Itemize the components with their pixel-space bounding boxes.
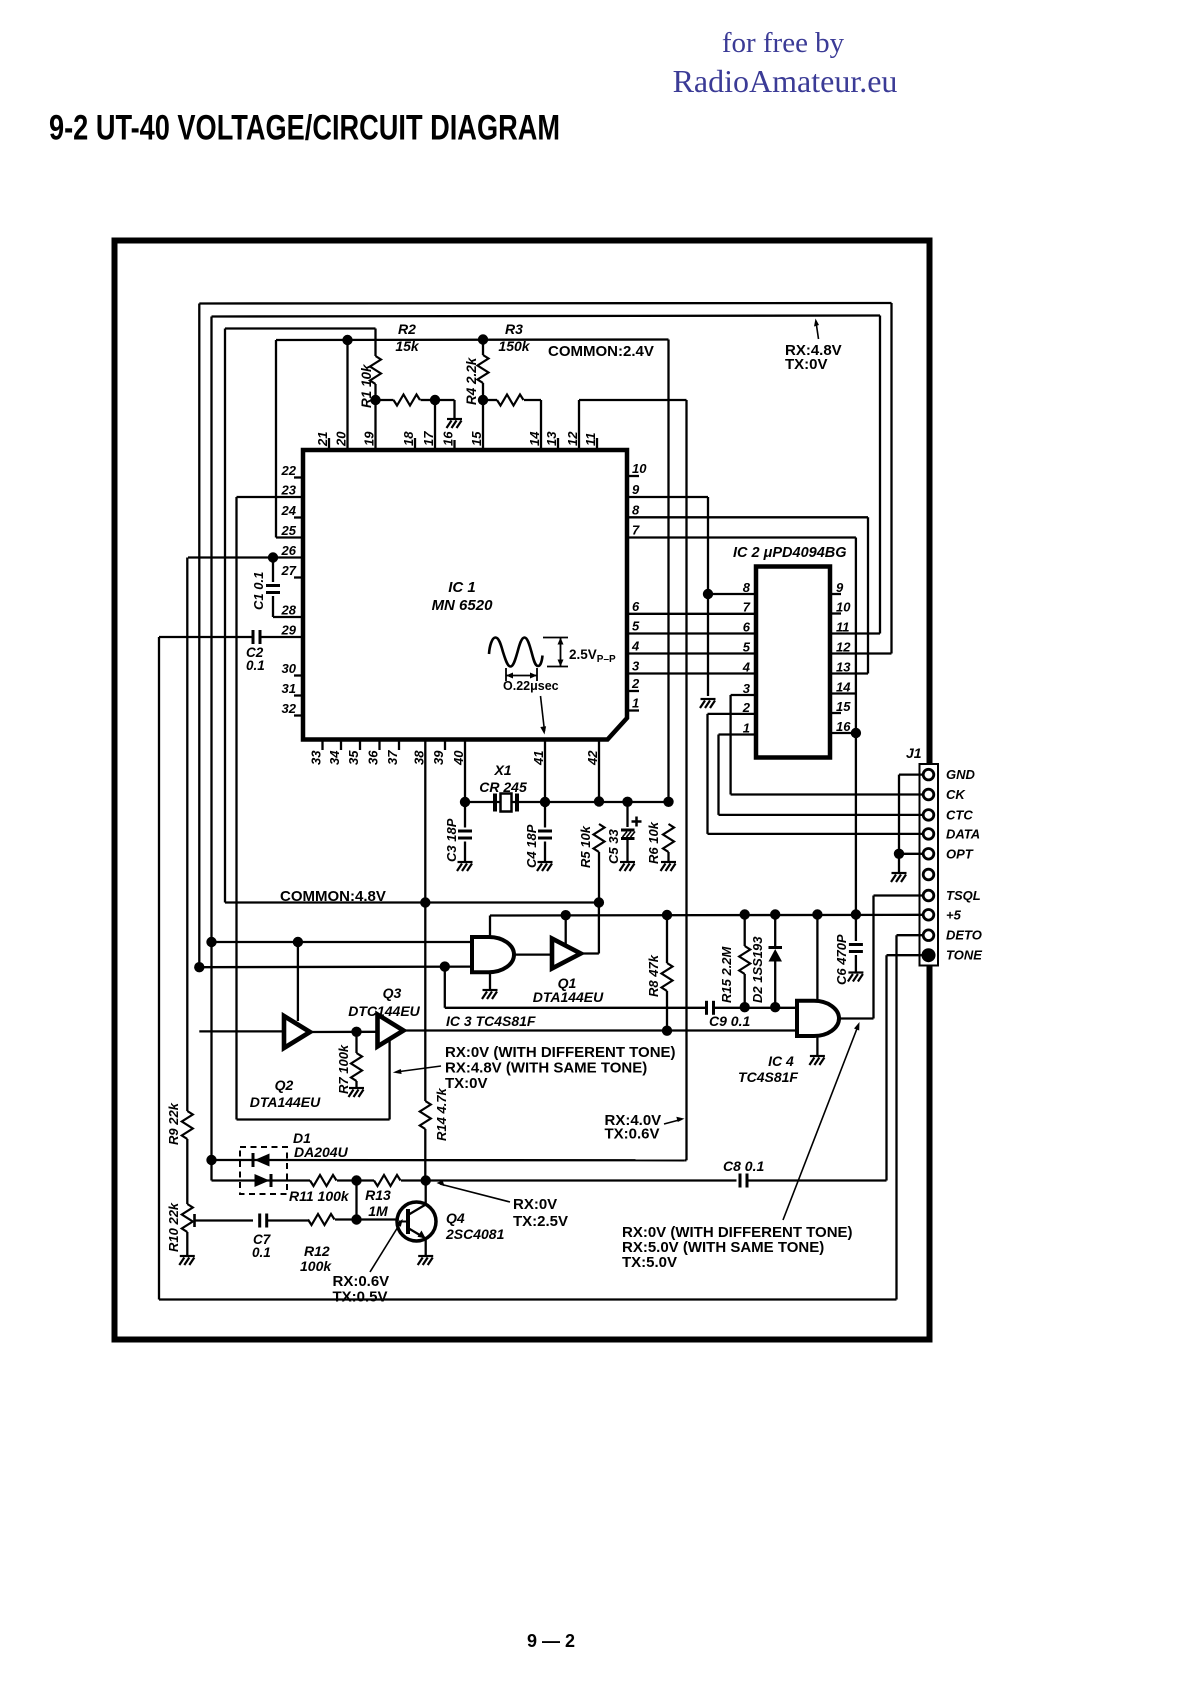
wire C7 to R12 [267, 1219, 308, 1221]
junction base line [351, 1214, 361, 1224]
svg-text:R1 10k: R1 10k [359, 363, 374, 408]
svg-text:1: 1 [632, 696, 639, 711]
svg-text:22: 22 [281, 463, 297, 478]
resistor R4 2.2k [482, 340, 484, 356]
svg-text:R9 22k: R9 22k [166, 1102, 181, 1145]
ground below IC3 [482, 990, 498, 999]
ground below Q4 [418, 1256, 434, 1265]
svg-text:17: 17 [421, 431, 436, 446]
wire IC3 output to Q1 [514, 953, 552, 955]
svg-text:R15 2.2M: R15 2.2M [719, 945, 734, 1003]
svg-text:R11 100k: R11 100k [289, 1188, 350, 1204]
resistor R1 10k [374, 329, 376, 357]
dashed box around D1 [240, 1147, 287, 1194]
svg-text:for free by: for free by [722, 27, 845, 59]
junction R15 top on +5 [740, 909, 750, 919]
junction IC2 pin 8 [703, 589, 713, 599]
junction D2 top on +5 [770, 909, 780, 919]
J1 pin NC circle [923, 869, 934, 880]
svg-text:13: 13 [836, 660, 851, 675]
border frame (outer) [115, 241, 930, 1340]
J1 pin DATA circle [923, 829, 934, 840]
svg-text:RadioAmateur.eu: RadioAmateur.eu [673, 63, 898, 99]
transistor Q2 DTA144EU (triangle) [284, 1016, 310, 1048]
annotation arrow from 0.22usec to pin 41 [541, 696, 545, 731]
svg-text:11: 11 [583, 433, 598, 447]
svg-text:6: 6 [743, 620, 751, 635]
svg-text:29: 29 [281, 623, 297, 638]
svg-text:16: 16 [836, 719, 851, 734]
junction Q4 collector node [421, 1175, 431, 1185]
wire IC1 pin 23 to Q3 base loop [237, 496, 304, 498]
svg-text:DETO: DETO [946, 928, 982, 943]
IC1 pin 10 stub [627, 475, 639, 477]
svg-text:3: 3 [632, 659, 640, 674]
svg-text:GND: GND [946, 767, 976, 782]
svg-text:30: 30 [282, 661, 297, 676]
wire D1 lower line to R11/R13 [210, 1160, 212, 1181]
wire IC3 input B (y=967) [199, 965, 472, 968]
crystal X1 CR245 [493, 794, 497, 812]
wire Q1 base from +5 [565, 915, 567, 946]
resistor R12 100k [308, 1214, 335, 1225]
wire C8 to TONE vertical [747, 1179, 887, 1181]
svg-text:26: 26 [281, 543, 297, 558]
IC1 pin 27 stub [294, 576, 303, 578]
wire C2 to DETO loop [159, 636, 253, 638]
svg-text:TX:0.6V: TX:0.6V [605, 1126, 660, 1143]
wire IC1 pin 38 to 4.8V rail [424, 740, 426, 904]
svg-text:21: 21 [315, 432, 330, 447]
wire IC2 pin 3 to J1 CK [731, 694, 756, 696]
svg-text:Q4: Q4 [446, 1210, 465, 1226]
junction R5 bottom on 4.8V rail [594, 897, 604, 907]
ground below C6 [848, 973, 864, 982]
svg-text:0.1: 0.1 [252, 1245, 271, 1260]
AND gate IC3 TC4S81F [472, 937, 514, 972]
wire IC1 pin 42 / R5 top [598, 740, 600, 802]
svg-text:10: 10 [632, 461, 647, 476]
capacitor C9 0.1 [707, 1001, 714, 1015]
transistor Q1 DTA144EU (triangle) [552, 939, 581, 969]
IC2 pin 10 stub [830, 612, 841, 614]
junction Q2 base takeoff [293, 937, 303, 947]
IC1 pin 21 stub [328, 438, 330, 450]
wire J1 OPT [899, 853, 924, 855]
svg-text:1M: 1M [368, 1203, 388, 1219]
svg-text:TX:0.5V: TX:0.5V [333, 1289, 388, 1306]
wire Q2 out to Q3 in to IC4 input B [310, 1031, 378, 1033]
junction Q1 base on +5 [561, 910, 571, 920]
svg-text:14: 14 [527, 431, 542, 446]
svg-text:9: 9 [836, 580, 844, 595]
wire IC1 pin 40 [464, 740, 466, 803]
wire IC2 pin 2 to J1 DATA [708, 713, 757, 715]
svg-text:C5 33: C5 33 [606, 829, 621, 864]
wire net COMMON 4.8V left vertical [224, 329, 226, 903]
Q4 emitter arrow [418, 1231, 426, 1239]
wire +5 down to IC3 top [489, 916, 491, 938]
svg-text:6: 6 [632, 599, 640, 614]
IC1 pin 18 stub [414, 438, 416, 450]
svg-text:R5 10k: R5 10k [578, 825, 593, 868]
ground below R10 [179, 1256, 195, 1265]
resistor R3 150k [483, 399, 497, 401]
svg-text:23: 23 [281, 483, 297, 498]
junction pin42/R5 [594, 796, 604, 806]
wire R2 to pin16 ground [435, 399, 455, 401]
wire IC1 pin 9 to IC2 pin 8 [627, 496, 708, 498]
svg-text:4: 4 [631, 639, 640, 654]
svg-text:DA204U: DA204U [294, 1144, 349, 1160]
junction OPT/GND ground node [894, 849, 904, 859]
resistor R11 100k [310, 1175, 337, 1186]
resistor R6 10k [663, 824, 674, 852]
annotation arrow to Q4 collector [440, 1184, 510, 1202]
wire D1 upper line (pin12 net) [212, 1159, 685, 1162]
svg-text:12: 12 [565, 431, 580, 446]
ground below IC2 pin 8 wire [700, 699, 716, 708]
svg-text:RX:4.8V (WITH SAME TONE): RX:4.8V (WITH SAME TONE) [445, 1060, 647, 1077]
svg-text:R13: R13 [365, 1187, 391, 1203]
J1 pin TSQL circle [923, 890, 934, 901]
AND gate IC4 TC4S81F [797, 1001, 839, 1036]
capacitor C3 18P [464, 802, 466, 828]
wire IC4 ground [816, 1036, 818, 1055]
svg-text:C3 18P: C3 18P [444, 818, 459, 862]
svg-text:100k: 100k [300, 1258, 332, 1274]
svg-text:RX:0V: RX:0V [513, 1196, 557, 1213]
sine wave symbol [489, 638, 543, 667]
wire IC1 pin 3 to IC2 pin 4 [627, 672, 756, 674]
wire IC1 pin 7 to IC2 pin 16 [627, 536, 856, 538]
svg-text:33: 33 [309, 750, 324, 765]
J1 pin CK circle [923, 789, 934, 800]
svg-text:COMMON:4.8V: COMMON:4.8V [280, 888, 386, 905]
svg-text:13: 13 [544, 431, 559, 446]
svg-text:40: 40 [451, 750, 466, 766]
J1 pin +5 circle [923, 910, 934, 921]
junction pin41/C4 [540, 797, 550, 807]
IC U1 body: IC1 MN6520 [303, 450, 627, 740]
wire IC2 pin 16 stub [830, 732, 856, 734]
svg-text:15k: 15k [395, 338, 420, 354]
svg-text:D2 1SS193: D2 1SS193 [750, 936, 765, 1003]
junction IC3-B / C9 branch [440, 961, 450, 971]
svg-text:25: 25 [281, 523, 297, 538]
svg-text:C9 0.1: C9 0.1 [709, 1013, 750, 1029]
junction pin20 on 2.4V wire [342, 335, 352, 345]
plus sign for C5 [632, 817, 642, 827]
IC1 pin 24 stub [294, 516, 303, 518]
svg-text:15: 15 [469, 431, 484, 446]
IC1 pin 39 stub [444, 740, 446, 751]
capacitor C4 18P [544, 802, 546, 828]
transistor Q4 2SC4081 [397, 1202, 436, 1241]
wire IC1 pin 4 to IC2 pin 5 [627, 652, 756, 654]
J1 pin CTC circle [923, 810, 934, 821]
wire J1 DETO down to bottom loop [897, 934, 924, 936]
svg-text:14: 14 [836, 680, 851, 695]
svg-text:31: 31 [282, 681, 296, 696]
J1 pin GND circle [923, 769, 934, 780]
svg-text:8: 8 [743, 580, 751, 595]
svg-text:R4 2.2k: R4 2.2k [464, 356, 479, 405]
resistor R8 47k [666, 915, 668, 963]
svg-text:1: 1 [743, 721, 750, 736]
capacitor C1 0.1 [272, 558, 274, 583]
svg-text:41: 41 [531, 751, 546, 766]
svg-text:34: 34 [327, 750, 342, 765]
junction D2 bottom [770, 1002, 780, 1012]
svg-text:R7 100k: R7 100k [336, 1044, 351, 1094]
resistor R14 4.7k [424, 903, 426, 1101]
svg-text:C1 0.1: C1 0.1 [251, 572, 266, 610]
junction C6 / IC2 pin16 on +5 [851, 909, 861, 919]
svg-text:20: 20 [334, 431, 349, 447]
IC1 pin 36 stub [378, 740, 380, 751]
wire IC3-B branch down to C9 line [444, 967, 446, 1008]
junction R15 bottom [740, 1002, 750, 1012]
svg-text:R8 47k: R8 47k [646, 954, 661, 997]
junction R4 bottom / R3 left / pin15 [478, 395, 488, 405]
svg-text:37: 37 [385, 750, 400, 765]
IC1 pin 16 stub [453, 440, 455, 450]
connector J1 box [920, 764, 939, 966]
svg-text:9 — 2: 9 — 2 [527, 1631, 575, 1651]
wire R11/R13 junction down to base line [355, 1181, 357, 1220]
junction pin38/R14 on rail [420, 897, 430, 907]
junction D1 branch [206, 1155, 216, 1165]
svg-text:0.1: 0.1 [246, 658, 265, 673]
svg-text:TSQL: TSQL [946, 888, 981, 903]
svg-text:28: 28 [281, 603, 297, 618]
svg-text:DTA144EU: DTA144EU [533, 989, 604, 1005]
resistor R13 1M [374, 1175, 401, 1186]
wire IC1 pin25 [276, 536, 303, 538]
wire IC1 pin 5 to IC2 pin 6 [627, 632, 756, 634]
resistor R5 10k [594, 824, 605, 852]
IC1 pin 34 stub [340, 740, 342, 751]
wire COMMON 2.4V down to C5/R6 rail [667, 340, 669, 802]
ground below C4 [537, 862, 553, 871]
J1 pin OPT circle [923, 849, 934, 860]
svg-text:42: 42 [585, 750, 600, 766]
wire Q2 input from loop [199, 1030, 284, 1032]
wire pin26 net down to R9 (x=187.3) [186, 558, 188, 1112]
junction R4 top on 2.4V wire [478, 334, 488, 344]
svg-text:TX:0V: TX:0V [785, 356, 828, 373]
svg-text:C8 0.1: C8 0.1 [723, 1158, 764, 1174]
IC1 pin 13 stub [557, 438, 559, 450]
svg-text:16: 16 [441, 431, 456, 446]
svg-text:Q2: Q2 [275, 1077, 294, 1093]
svg-text:TX:5.0V: TX:5.0V [622, 1254, 677, 1271]
diode D2 1SS193 [774, 915, 776, 948]
wire oscillator rail y=802 [465, 801, 669, 803]
wire pin12 net vertical x=686.5 [685, 400, 687, 1160]
svg-text:IC 4: IC 4 [768, 1053, 794, 1069]
svg-text:R2: R2 [398, 321, 416, 337]
svg-text:IC 1: IC 1 [448, 579, 476, 596]
svg-text:9: 9 [632, 482, 640, 497]
ground below C5 [620, 862, 636, 871]
junction R8 top on +5 [662, 910, 672, 920]
svg-text:32: 32 [282, 701, 297, 716]
wire net IC2p11 top loop (y=316) [212, 316, 881, 317]
svg-text:150k: 150k [498, 338, 530, 354]
wire R11 to R13 [337, 1179, 374, 1181]
capacitor C7 0.1 [260, 1214, 267, 1228]
wire C7 line from R10 [194, 1219, 253, 1221]
capacitor C8 0.1 [740, 1174, 747, 1188]
svg-text:IC 3 TC4S81F: IC 3 TC4S81F [446, 1013, 536, 1029]
IC1 pin 33 stub [321, 740, 323, 751]
svg-text:2SC4081: 2SC4081 [445, 1226, 505, 1242]
svg-text:TONE: TONE [946, 948, 982, 963]
dimension line 0.22usec [505, 668, 507, 681]
wire IC1 pin 41 [544, 740, 546, 803]
svg-text:MN 6520: MN 6520 [432, 597, 494, 614]
wire R3 right to IC1 pin 14 [540, 400, 542, 450]
wire IC1 pin 29 to C2 [260, 636, 303, 638]
svg-text:R10 22k: R10 22k [166, 1202, 181, 1252]
wire IC1 pin 12 up and over [578, 400, 580, 450]
svg-text:7: 7 [632, 523, 640, 538]
IC1 pin 2 stub [627, 690, 639, 692]
wire +5 line [490, 914, 924, 917]
wire net IC2p12 to IC2 pin 12 [830, 652, 892, 654]
IC1 pin 37 stub [398, 740, 400, 751]
svg-text:35: 35 [346, 750, 361, 765]
svg-text:19: 19 [362, 431, 377, 446]
ground below C3 [457, 862, 473, 871]
IC1 pin 1 stub [627, 709, 639, 711]
svg-text:R12: R12 [304, 1243, 330, 1259]
IC2 pin 15 stub [830, 712, 841, 714]
junction C5 top [622, 797, 632, 807]
junction Q2 input loop [194, 962, 204, 972]
wire IC4 top pin [816, 915, 818, 1002]
wire COMMON 4.8V rail [225, 901, 599, 903]
svg-text:C6 470P: C6 470P [834, 934, 849, 985]
ground below R7 [349, 1088, 365, 1097]
svg-text:DTA144EU: DTA144EU [250, 1094, 321, 1110]
wire net IC2p12 top loop (y=303.5) [199, 302, 891, 305]
wire IC3 input A (y=942) [212, 941, 473, 943]
wire IC4 output to J1 TSQL [838, 1017, 874, 1019]
svg-text:38: 38 [411, 750, 426, 765]
wire Q4 emitter to ground [425, 1239, 427, 1256]
svg-text:39: 39 [431, 750, 446, 765]
wire Q2 base [297, 942, 299, 1021]
svg-text:36: 36 [366, 750, 381, 765]
J1 pin DETO circle [923, 930, 934, 941]
svg-text:RX:0.6V: RX:0.6V [333, 1273, 390, 1290]
svg-text:10: 10 [836, 600, 851, 615]
ground at pin 16 [447, 419, 463, 428]
svg-text:3: 3 [743, 681, 751, 696]
svg-text:TX:2.5V: TX:2.5V [513, 1213, 568, 1230]
svg-text:OPT: OPT [946, 846, 974, 861]
wire IC1 pin 26 / C1 top [188, 556, 303, 558]
wire R13 to Q4 collector node [401, 1179, 737, 1181]
diode D1b (lower, DA204U) [255, 1174, 270, 1187]
svg-text:12: 12 [836, 640, 851, 655]
wire IC1 pin 8 to IC2 pin 13 [627, 516, 868, 518]
IC1 pin 31 stub [294, 694, 303, 696]
junction R6 top / 2.4V [663, 797, 673, 807]
svg-text:11: 11 [836, 620, 850, 635]
svg-text:DATA: DATA [946, 826, 980, 841]
resistor R15 2.2M [744, 915, 746, 947]
wire IC1 pin 6 to IC2 pin 7 [627, 613, 756, 615]
IC2 pin 9 stub [830, 593, 841, 595]
svg-text:CK: CK [946, 787, 966, 802]
svg-text:8: 8 [632, 502, 640, 517]
wire J1 GND to ground [899, 773, 924, 775]
resistor R7 100k [355, 1032, 357, 1053]
wire R1 top (y=328.5) [225, 327, 376, 329]
svg-text:TC4S81F: TC4S81F [738, 1069, 798, 1085]
svg-text:15: 15 [836, 699, 851, 714]
junction R8 bottom [662, 1026, 672, 1036]
capacitor C5 33 (electrolytic) [626, 802, 628, 827]
capacitor C6 470P [855, 915, 857, 942]
svg-text:O.22μsec: O.22μsec [503, 679, 559, 693]
wire J1 TONE [887, 954, 925, 956]
svg-text:7: 7 [743, 600, 751, 615]
IC1 pin 11 stub [596, 438, 598, 450]
annotation arrow to pin12 net vertical [664, 1120, 681, 1125]
junction R2 right / pin17 [430, 395, 440, 405]
annotation arrow to Q4 base [370, 1222, 401, 1272]
svg-text:RX:0V (WITH DIFFERENT TONE): RX:0V (WITH DIFFERENT TONE) [445, 1044, 676, 1061]
svg-text:24: 24 [281, 503, 297, 518]
wire IC3 ground [489, 972, 491, 989]
transistor Q3 DTC144EU (triangle) [378, 1015, 404, 1047]
wire R12 to Q4 base [335, 1218, 399, 1220]
capacitor C2 0.1 [253, 630, 260, 644]
junction IC4 top pin on +5 [812, 909, 822, 919]
ground below R6 [661, 862, 677, 871]
svg-text:+5: +5 [946, 907, 962, 922]
junction R1 bottom / R2 / pin19 [370, 395, 380, 405]
junction R11/R13 to Q4 base [351, 1175, 361, 1185]
annotation arrow to top loop [816, 322, 819, 339]
wire IC2 pin 1 to J1 CTC [719, 733, 757, 735]
annotation arrow to IC4 output net [783, 1026, 858, 1220]
wire IC1 pin 17 [434, 400, 436, 450]
ground below IC4 [809, 1056, 825, 1065]
dimension line 2.5Vp-p [543, 637, 568, 639]
svg-text:IC 2 μPD4094BG: IC 2 μPD4094BG [733, 545, 847, 561]
wire net COMMON 2.4V (from pin25 loop) [275, 340, 277, 538]
junction x211 net split [206, 937, 216, 947]
IC1 pin 35 stub [359, 740, 361, 751]
svg-text:9-2 UT-40 VOLTAGE/CIRCUIT DIA: 9-2 UT-40 VOLTAGE/CIRCUIT DIAGRAM [49, 108, 560, 148]
svg-text:R3: R3 [505, 321, 523, 337]
junction IC2 pin 16 [851, 728, 861, 738]
svg-text:2: 2 [742, 700, 751, 715]
resistor R10 22k [186, 1139, 188, 1204]
svg-text:COMMON:2.4V: COMMON:2.4V [548, 343, 654, 360]
resistor R2 15k [376, 399, 394, 401]
junction R7 top [351, 1027, 361, 1037]
IC U2 body: IC2 uPD4094BG [756, 567, 830, 758]
wire net IC2p11 to IC2 pin 11 [830, 632, 880, 634]
svg-text:TX:0V: TX:0V [445, 1075, 488, 1092]
